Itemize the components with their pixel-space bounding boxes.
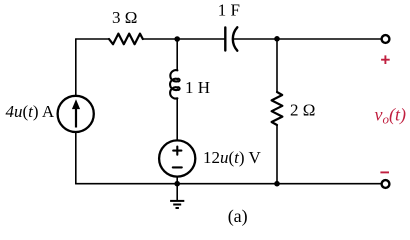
capacitor C1 1F left plate	[224, 28, 226, 51]
current source I1 arrow shaft	[75, 107, 77, 128]
svg-text:vo(t): vo(t)	[375, 104, 407, 126]
terminal bottom right open circle	[382, 180, 390, 188]
svg-text:2 Ω: 2 Ω	[290, 100, 315, 119]
svg-text:1 H: 1 H	[185, 78, 210, 97]
resistor R1 3ohm zigzag	[109, 34, 143, 45]
terminal top right open circle	[382, 35, 390, 43]
svg-text:1 F: 1 F	[218, 0, 240, 19]
wire right branch top	[276, 39, 278, 92]
ground stub	[176, 184, 178, 201]
ground bar 1	[170, 200, 184, 202]
svg-text:12u(t) V: 12u(t) V	[203, 148, 262, 167]
red minus terminal polarity	[380, 171, 389, 173]
node dot top middle	[174, 36, 180, 42]
current source I1 circle	[58, 96, 94, 132]
wire bottom	[76, 183, 382, 185]
wire right branch bottom	[276, 125, 278, 184]
ground bar 2	[173, 204, 181, 206]
ground bar 3	[176, 207, 179, 209]
red plus terminal polarity	[381, 55, 390, 64]
wire capacitor to top terminal	[234, 38, 381, 40]
wire middle branch top	[176, 39, 178, 70]
inductor L1 1H coil	[170, 70, 179, 98]
node dot bottom right	[274, 181, 280, 187]
capacitor C1 1F curved plate	[233, 27, 237, 50]
wire left branch upper	[75, 39, 77, 95]
wire inductor to vsource	[176, 98, 178, 140]
current source I1 arrowhead	[72, 99, 80, 109]
wire left branch lower	[75, 133, 77, 184]
wire vsource to bottom	[176, 177, 178, 183]
svg-text:3 Ω: 3 Ω	[112, 8, 137, 27]
voltage source V1 circle	[159, 140, 195, 176]
wire resistor to capacitor	[143, 38, 224, 40]
node dot top right	[274, 36, 280, 42]
wire top-left horizontal	[76, 38, 109, 40]
voltage source V1 minus sign	[173, 166, 182, 168]
resistor R2 2ohm zigzag	[272, 92, 283, 125]
svg-text:4u(t) A: 4u(t) A	[6, 102, 55, 121]
node dot bottom middle (ground junction)	[174, 181, 180, 187]
svg-text:(a): (a)	[228, 206, 248, 227]
voltage source V1 plus sign	[173, 147, 181, 155]
